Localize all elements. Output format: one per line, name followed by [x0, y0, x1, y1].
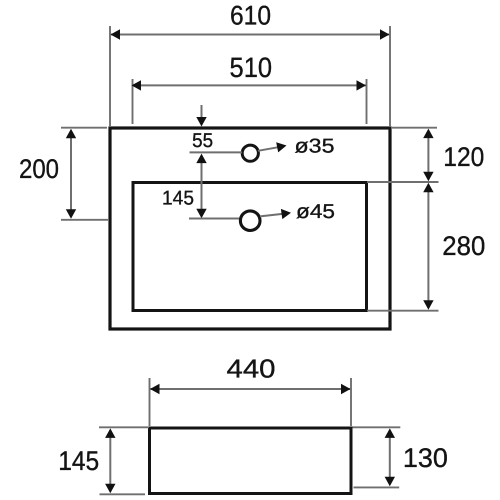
label d35: arrowhead	[276, 140, 287, 152]
dimension 510: left arrowhead	[132, 80, 142, 90]
drain hole circle (d45)	[240, 211, 260, 231]
dimension 440: dimension line	[151, 388, 351, 390]
dimension 145: tick line at drain hole	[189, 218, 239, 220]
dimension 280: top arrowhead	[423, 183, 433, 193]
dimension 200: bottom arrowhead	[66, 209, 76, 219]
svg-text:280: 280	[442, 231, 485, 261]
dimension 610: right arrowhead	[380, 29, 390, 39]
dimension 145 (height): bottom arrowhead	[105, 484, 115, 494]
dimension 440: extension lines	[150, 378, 352, 426]
svg-text:440: 440	[227, 354, 276, 384]
dimension 610: extension lines	[110, 26, 390, 126]
dimension 200: dimension line	[70, 131, 72, 217]
basin inner bowl outline (top view)	[133, 183, 367, 311]
dimension 145: bottom arrowhead	[196, 209, 206, 219]
svg-text:145: 145	[162, 188, 194, 210]
faucet hole circle (d35)	[242, 145, 258, 161]
dimension 440: right arrowhead	[341, 384, 351, 394]
dimension 55: tick line at faucet hole	[190, 151, 243, 153]
dimension 280: dimension line	[427, 185, 429, 308]
dimension 280: tick line at inner bottom	[367, 310, 439, 312]
dimension 280: bottom arrowhead	[423, 300, 433, 310]
svg-text:200: 200	[19, 154, 59, 184]
dimension 510: extension lines	[133, 79, 367, 124]
svg-text:ø35: ø35	[295, 136, 335, 158]
dimension 440: left arrowhead	[150, 384, 160, 394]
dimension 145 (hole spacing): dimension line	[201, 156, 203, 216]
svg-text:ø45: ø45	[296, 201, 335, 223]
dimension 130: tick lines	[353, 427, 401, 487]
dimension 200: tick lines	[61, 128, 108, 220]
dimension 130: bottom arrowhead	[385, 477, 395, 487]
dimension 510: right arrowhead	[357, 80, 367, 90]
dimension 130: dimension line	[389, 431, 391, 484]
svg-text:130: 130	[403, 443, 448, 473]
dimension 145: top arrowhead	[196, 154, 206, 164]
label d45: leader line	[260, 213, 288, 216]
centerline stub arrow above rim	[201, 105, 203, 118]
dimension 200: top arrowhead	[66, 129, 76, 139]
dimension 120: tick lines	[367, 128, 439, 182]
dimension 610: left arrowhead	[111, 29, 121, 39]
dimension 130: top arrowhead	[385, 428, 395, 438]
dimension 120: top arrowhead	[423, 129, 433, 139]
svg-text:145: 145	[58, 446, 99, 476]
side view outline	[150, 428, 352, 494]
dimension 145 (height): dimension line	[109, 431, 111, 491]
svg-text:120: 120	[443, 142, 484, 172]
basin outer outline (top view)	[110, 128, 390, 329]
dimension 145 (height): tick lines	[99, 427, 149, 494]
dimension 145 (height): top arrowhead	[105, 428, 115, 438]
dimension 120: dimension line	[427, 131, 429, 179]
svg-text:510: 510	[230, 52, 273, 83]
label d45: arrowhead	[281, 208, 292, 220]
dimension 510: dimension line	[133, 84, 366, 86]
svg-text:610: 610	[230, 1, 271, 31]
svg-text:55: 55	[192, 130, 213, 152]
label d35: leader line	[258, 146, 284, 151]
dimension 120: bottom arrowhead	[423, 172, 433, 182]
dimension 610: dimension line	[111, 34, 389, 36]
